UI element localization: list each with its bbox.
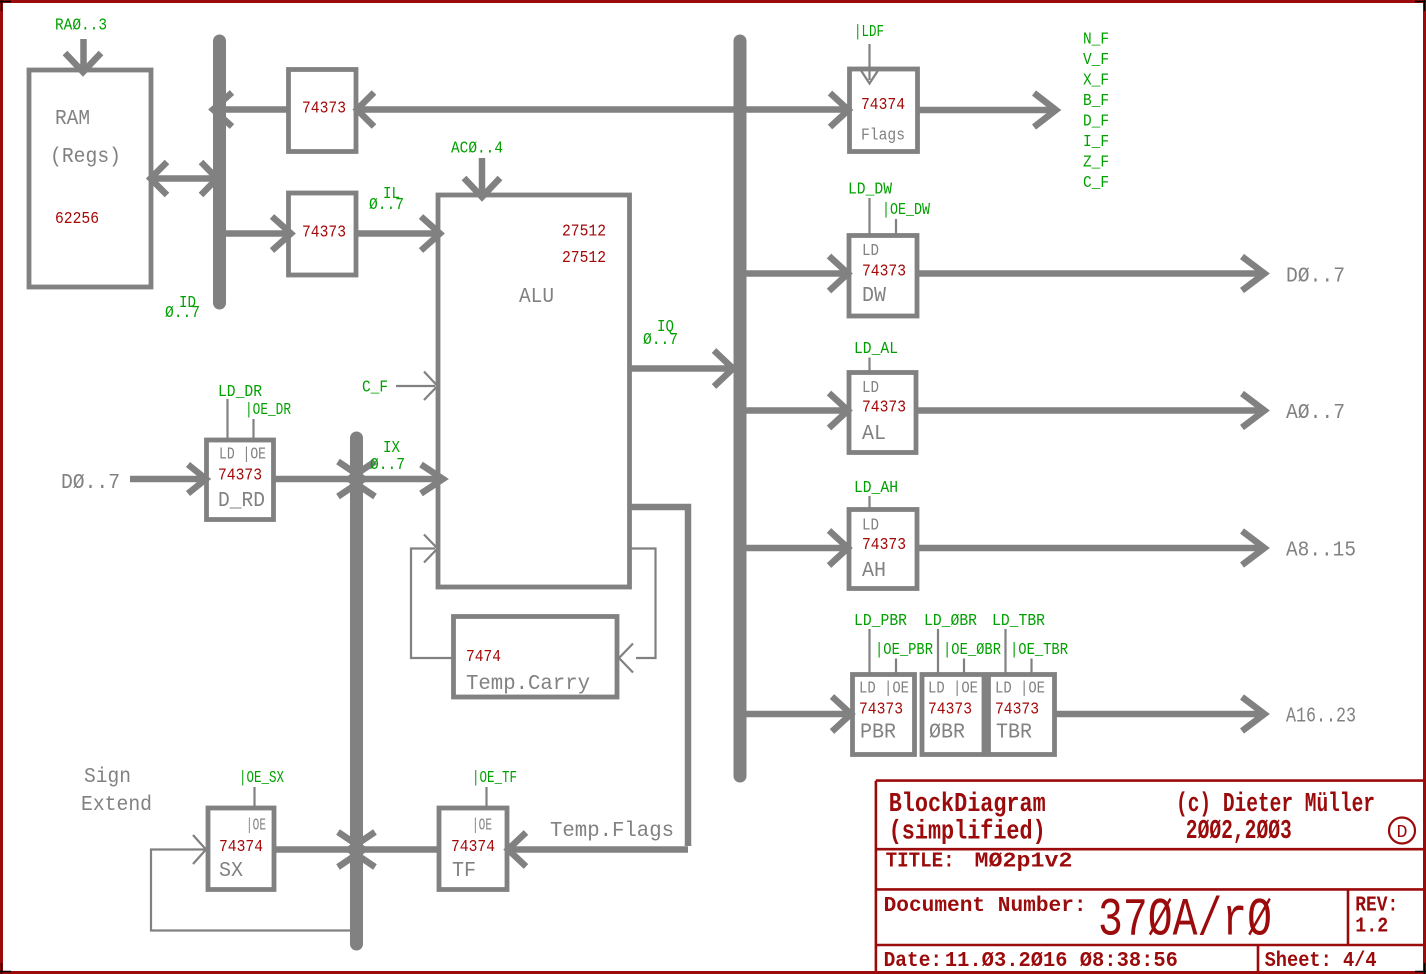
svg-text:Ø..7: Ø..7 [370, 456, 405, 475]
svg-text:PBR: PBR [860, 722, 896, 745]
svg-text:Extend: Extend [81, 794, 152, 817]
svg-text:D_RD: D_RD [218, 490, 265, 513]
svg-text:LD_TBR: LD_TBR [992, 612, 1045, 631]
svg-text:Temp.Carry: Temp.Carry [466, 673, 590, 696]
svg-text:11.Ø3.2Ø16 Ø8:38:56: 11.Ø3.2Ø16 Ø8:38:56 [945, 949, 1178, 973]
svg-text:LD_AH: LD_AH [854, 479, 898, 498]
svg-text:C_F: C_F [1083, 174, 1109, 193]
svg-text:LD: LD [862, 517, 879, 536]
svg-text:74374: 74374 [219, 838, 263, 857]
svg-text:MØ2p1v2: MØ2p1v2 [975, 850, 1073, 874]
svg-text:74373: 74373 [928, 701, 972, 720]
svg-text:DØ..7: DØ..7 [1286, 266, 1345, 289]
svg-text:Ø..7: Ø..7 [165, 304, 200, 323]
svg-text:N_F: N_F [1083, 31, 1109, 50]
svg-text:BlockDiagram: BlockDiagram [889, 790, 1046, 820]
svg-text:LD |OE: LD |OE [219, 446, 266, 465]
svg-text:C_F: C_F [362, 379, 388, 398]
svg-text:74373: 74373 [302, 224, 346, 243]
svg-text:Sign: Sign [84, 766, 131, 789]
svg-text:LD_DR: LD_DR [218, 383, 262, 402]
svg-text:2ØØ2,2ØØ3: 2ØØ2,2ØØ3 [1186, 817, 1292, 847]
svg-text:27512: 27512 [562, 249, 606, 268]
svg-text:|OE_TBR: |OE_TBR [1010, 641, 1068, 660]
svg-text:A8..15: A8..15 [1286, 540, 1356, 563]
svg-text:X_F: X_F [1083, 72, 1109, 91]
svg-text:LD_PBR: LD_PBR [854, 612, 907, 631]
svg-text:74373: 74373 [218, 467, 262, 486]
svg-text:Flags: Flags [861, 127, 905, 146]
svg-text:TITLE:: TITLE: [886, 850, 955, 874]
svg-text:Sheet: 4/4: Sheet: 4/4 [1265, 949, 1377, 973]
svg-text:|OE_TF: |OE_TF [472, 769, 517, 788]
svg-text:74373: 74373 [859, 701, 903, 720]
svg-text:(Regs): (Regs) [50, 146, 121, 169]
svg-text:|OE_PBR: |OE_PBR [875, 641, 933, 660]
svg-text:74374: 74374 [861, 96, 905, 115]
svg-text:LD_ØBR: LD_ØBR [924, 612, 977, 631]
svg-text:AH: AH [862, 560, 886, 583]
svg-text:LD_DW: LD_DW [848, 181, 893, 200]
svg-text:LD: LD [862, 379, 879, 398]
svg-text:37ØA/rØ: 37ØA/rØ [1098, 891, 1272, 952]
svg-text:|OE_DR: |OE_DR [245, 401, 291, 420]
svg-text:B_F: B_F [1083, 92, 1109, 111]
svg-text:74373: 74373 [862, 536, 906, 555]
svg-text:(c) Dieter Müller: (c) Dieter Müller [1176, 790, 1375, 820]
svg-text:LD |OE: LD |OE [995, 680, 1045, 699]
svg-text:|LDF: |LDF [854, 23, 884, 42]
svg-text:RAM: RAM [55, 108, 90, 131]
svg-text:I_F: I_F [1083, 133, 1109, 152]
svg-text:LD: LD [862, 242, 879, 261]
svg-text:1.2: 1.2 [1355, 915, 1388, 939]
svg-text:AL: AL [862, 423, 886, 446]
svg-text:(simplified): (simplified) [889, 818, 1046, 848]
svg-text:74373: 74373 [862, 399, 906, 418]
svg-text:SX: SX [219, 860, 243, 883]
svg-text:|OE_SX: |OE_SX [239, 769, 284, 788]
svg-text:62256: 62256 [55, 210, 99, 229]
svg-text:TBR: TBR [996, 722, 1032, 745]
svg-text:74373: 74373 [302, 100, 346, 119]
svg-text:|OE_ØBR: |OE_ØBR [943, 641, 1001, 660]
svg-text:DØ..7: DØ..7 [61, 472, 120, 495]
svg-text:ØBR: ØBR [929, 722, 965, 745]
svg-text:LD_AL: LD_AL [854, 340, 898, 359]
svg-text:ALU: ALU [519, 286, 554, 309]
svg-text:LD |OE: LD |OE [928, 680, 978, 699]
svg-text:Z_F: Z_F [1083, 154, 1109, 173]
svg-text:Ø..7: Ø..7 [643, 331, 678, 350]
svg-text:Temp.Flags: Temp.Flags [550, 820, 674, 843]
svg-text:D: D [1397, 823, 1408, 843]
svg-text:Date:: Date: [884, 949, 943, 973]
svg-text:AØ..7: AØ..7 [1286, 402, 1345, 425]
svg-text:74374: 74374 [451, 838, 495, 857]
svg-text:ACØ..4: ACØ..4 [451, 140, 503, 159]
svg-text:7474: 7474 [466, 648, 501, 667]
svg-text:|OE: |OE [246, 817, 266, 836]
svg-text:DW: DW [862, 285, 886, 308]
svg-text:TF: TF [452, 860, 476, 883]
svg-text:27512: 27512 [562, 223, 606, 242]
svg-text:V_F: V_F [1083, 51, 1109, 70]
svg-text:|OE: |OE [472, 817, 492, 836]
svg-text:D_F: D_F [1083, 113, 1109, 132]
svg-text:Ø..7: Ø..7 [369, 196, 404, 215]
svg-text:Document Number:: Document Number: [884, 894, 1087, 918]
svg-text:LD |OE: LD |OE [859, 680, 909, 699]
svg-text:RAØ..3: RAØ..3 [55, 17, 107, 36]
svg-text:|OE_DW: |OE_DW [882, 201, 931, 220]
svg-text:A16..23: A16..23 [1286, 706, 1356, 729]
svg-text:74373: 74373 [862, 263, 906, 282]
svg-text:74373: 74373 [995, 701, 1039, 720]
